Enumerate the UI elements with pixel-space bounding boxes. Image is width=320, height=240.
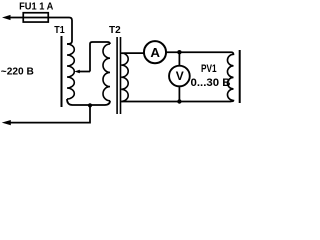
- node neutral junction dot: [88, 103, 92, 107]
- wire T1 tap riser up and over to T2 primary top: [90, 42, 110, 72]
- wire T1 tap horizontal segment: [80, 71, 91, 73]
- transformer T2 secondary winding: [121, 53, 128, 101]
- wire T2 secondary top to ammeter: [121, 52, 144, 55]
- transformer T2 core line left: [116, 37, 118, 114]
- svg-text:V: V: [176, 69, 185, 83]
- node mains neutral terminal arrow: [2, 120, 11, 125]
- node output bottom junction dot: [177, 99, 181, 103]
- transformer T2 primary winding: [103, 44, 110, 101]
- wire T1 bottom to T2 primary bottom: [67, 99, 110, 105]
- svg-text:PV1: PV1: [201, 63, 217, 75]
- node T1 wiper arrowhead: [74, 70, 80, 74]
- svg-text:T1: T1: [54, 25, 65, 36]
- load winding core line: [239, 50, 241, 103]
- transformer T2 core line right: [120, 37, 122, 114]
- wire neutral drop and bottom bus: [7, 105, 90, 122]
- voltmeter PV1 circle: [169, 66, 190, 87]
- ammeter PA1 circle: [144, 41, 166, 63]
- svg-text:T2: T2: [109, 25, 121, 36]
- svg-text:A: A: [150, 45, 160, 60]
- wire ammeter to load top: [166, 51, 231, 53]
- wire voltmeter top lead: [178, 52, 180, 66]
- svg-text:0...30 В: 0...30 В: [191, 77, 231, 89]
- node output top junction dot: [177, 50, 181, 54]
- svg-text:FU1 1 A: FU1 1 A: [19, 1, 54, 13]
- wire output bottom from T2 secondary to load: [121, 100, 231, 102]
- svg-text:~220 В: ~220 В: [1, 67, 34, 78]
- transformer T1 winding (autotransformer): [67, 44, 74, 99]
- load winding (next stage primary): [227, 52, 233, 101]
- transformer T1 core line: [61, 36, 63, 107]
- wire voltmeter bottom lead: [178, 86, 180, 101]
- fuse FU1: [23, 13, 48, 22]
- node mains phase terminal arrow: [2, 15, 11, 20]
- wire top mains line from arrow through fuse, corner down into T1: [7, 18, 72, 45]
